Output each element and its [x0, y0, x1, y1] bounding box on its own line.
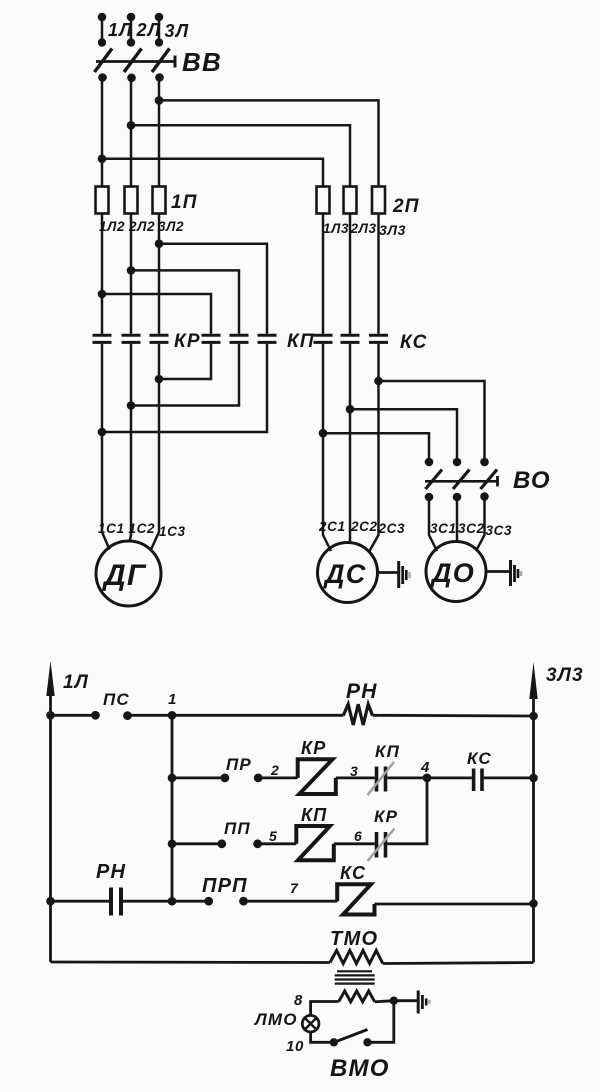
svg-text:ТМО: ТМО: [330, 928, 378, 950]
transformer core: [335, 971, 375, 983]
contactor КР main contacts: [93, 331, 201, 352]
ground of ДС: [378, 561, 410, 588]
wire 2П phase2 mid: [349, 214, 352, 334]
terminal 2Л: [127, 13, 162, 47]
lamp ЛМО: [253, 1010, 319, 1032]
svg-text:КП: КП: [375, 742, 400, 761]
node on phase3 / wire branch to 2П fuse3: [155, 96, 379, 186]
contactor coil КС: [337, 863, 374, 915]
node top right: [529, 712, 538, 721]
svg-text:РН: РН: [96, 861, 126, 883]
motor ДС: [318, 543, 378, 603]
svg-text:3С3: 3С3: [486, 523, 513, 538]
contact ПРП: [202, 875, 248, 906]
wire to right rail: [484, 774, 538, 783]
right rail 3Л3 with arrow: [529, 662, 583, 963]
wire: [51, 900, 110, 903]
svg-text:5: 5: [269, 828, 277, 844]
svg-text:1Л: 1Л: [63, 672, 89, 693]
node on phase2 / wire branch to 2П fuse2: [127, 121, 350, 187]
svg-text:3Л: 3Л: [165, 21, 190, 41]
svg-text:3Л3: 3Л3: [546, 665, 584, 686]
svg-text:ПР: ПР: [226, 755, 252, 774]
svg-text:ВО: ВО: [513, 467, 551, 494]
wire: [373, 714, 534, 718]
svg-text:ДО: ДО: [430, 558, 475, 588]
svg-text:КС: КС: [340, 863, 366, 883]
row2: node: [168, 774, 177, 783]
svg-text:КР: КР: [174, 331, 201, 352]
wire node 3: [336, 763, 375, 779]
svg-text:7: 7: [290, 880, 299, 896]
wire ВО pole1 to motor ДО: [429, 497, 437, 551]
wire X2 lower / node join phase2: [127, 344, 239, 410]
contact ПП: [217, 819, 262, 848]
wire node 4: [387, 759, 472, 782]
transformer ТМО primary: [330, 928, 383, 964]
wire phase3 upper: [158, 78, 161, 187]
wire right rail bottom to transformer: [383, 963, 534, 964]
wire 2П phase3 mid: [377, 214, 380, 334]
wire 2П phase1 mid: [322, 214, 325, 334]
wire X1 lower / node join phase3: [155, 344, 211, 384]
switch ВО: [425, 458, 551, 502]
transformer ТМО secondary: [339, 991, 375, 1002]
svg-text:2Л: 2Л: [136, 20, 162, 40]
terminal 3Л: [155, 13, 190, 47]
node phase1 / wire crossover to X1: [98, 290, 211, 334]
svg-text:1: 1: [168, 691, 177, 708]
node-1 vertical wire: [171, 715, 174, 901]
svg-text:3: 3: [350, 763, 358, 779]
switch ВВ: [95, 47, 222, 82]
contactor КС main contacts: [314, 332, 428, 353]
svg-text:2: 2: [270, 762, 279, 778]
contactor coil КР: [298, 738, 336, 794]
svg-text:КП: КП: [301, 805, 327, 825]
wire: [128, 714, 344, 717]
NC contact КП: [368, 742, 401, 795]
svg-text:ВМО: ВМО: [330, 1055, 390, 1082]
wire up to node 4: [387, 778, 427, 844]
contact ПР: [221, 755, 263, 782]
svg-text:КР: КР: [301, 738, 326, 758]
node phase2 / wire crossover to X2: [127, 266, 239, 334]
node phase3 / wire crossover to X3: [155, 239, 267, 333]
svg-text:ДС: ДС: [323, 559, 366, 589]
wire node 7: [244, 880, 338, 901]
svg-text:6: 6: [354, 828, 362, 844]
wire 2П phase3 to motor ДС: [370, 344, 379, 551]
wire 2П phase1 to motor ДС: [323, 344, 331, 551]
relay coil РН (zigzag): [343, 680, 377, 725]
svg-text:ЛМО: ЛМО: [253, 1010, 298, 1029]
wire secondary left / node 8: [294, 992, 339, 1015]
svg-text:3Л2: 3Л2: [158, 219, 184, 234]
wire ВО pole2 to motor ДО: [456, 497, 459, 542]
wire / node: [123, 897, 209, 906]
svg-text:1С2: 1С2: [129, 521, 156, 536]
node / branch wire to ВО pole2: [346, 405, 457, 462]
motor ДО: [426, 542, 486, 602]
node on phase1 / wire branch to 2П fuse1: [98, 155, 323, 187]
ground of ТМО secondary: [394, 991, 430, 1014]
wire node 2: [258, 762, 298, 778]
labels 3С1 3С2 3С3: [430, 521, 512, 538]
svg-text:8: 8: [294, 992, 303, 1009]
wire phase2 mid: [130, 214, 133, 334]
svg-text:РН: РН: [346, 680, 378, 703]
wire phase1 mid: [101, 214, 104, 334]
NC contact КР: [368, 807, 399, 861]
svg-text:1С3: 1С3: [159, 524, 186, 539]
svg-text:2П: 2П: [392, 196, 420, 217]
wire phase1 to motor ДГ: [102, 344, 110, 550]
row4: node left rail: [46, 897, 55, 906]
row3: node: [168, 840, 177, 849]
wire: [51, 714, 96, 717]
wire: [172, 842, 222, 845]
motor ДГ: [96, 541, 161, 606]
svg-text:10: 10: [286, 1038, 304, 1055]
svg-text:1Л3: 1Л3: [323, 221, 349, 236]
labels 1С1 1С2 1С3: [98, 521, 186, 539]
node / branch wire to ВО pole3: [374, 377, 484, 462]
wire phase2 to motor ДГ: [130, 344, 132, 542]
svg-text:1Л: 1Л: [108, 20, 133, 40]
terminal 1Л: [98, 13, 133, 47]
node / branch wire to ВО pole1: [319, 429, 429, 462]
ground of ДО: [486, 560, 521, 586]
svg-text:2С1: 2С1: [318, 519, 346, 534]
svg-text:ПП: ПП: [224, 819, 251, 838]
NO contact КС: [467, 749, 492, 791]
svg-text:3Л3: 3Л3: [379, 222, 406, 238]
svg-text:2С3: 2С3: [378, 521, 406, 536]
svg-text:2Л3: 2Л3: [350, 221, 377, 236]
wire node 5: [258, 828, 297, 844]
svg-text:ПРП: ПРП: [202, 875, 248, 897]
wire to right rail: [375, 899, 538, 908]
switch ВМО: [330, 1030, 390, 1083]
wire phase1 upper: [101, 78, 104, 187]
wire left rail bottom to transformer: [51, 961, 331, 964]
node 1: [168, 691, 177, 720]
contactor coil КП: [296, 805, 334, 860]
fuse group 2П: [317, 187, 420, 218]
svg-text:2С2: 2С2: [350, 519, 378, 534]
wire lamp to ВМО / label 10: [286, 1032, 334, 1055]
svg-text:ПС: ПС: [103, 690, 130, 709]
wire ВО pole3 to motor ДО: [476, 497, 485, 552]
contactor КП main contacts: [202, 331, 315, 352]
wire phase3 to motor ДГ: [151, 344, 159, 550]
wire ВМО to secondary right / node: [368, 997, 398, 1043]
svg-text:ВВ: ВВ: [182, 47, 222, 77]
svg-text:1П: 1П: [171, 192, 198, 213]
svg-text:3С2: 3С2: [458, 521, 485, 536]
svg-text:4: 4: [420, 759, 430, 776]
wire 2П phase2 to motor ДС: [349, 344, 352, 543]
wire: [172, 777, 225, 780]
svg-text:ДГ: ДГ: [101, 559, 147, 592]
wire phase3 mid: [158, 214, 161, 334]
fuse labels 1Л3 2Л3 3Л3: [323, 221, 406, 238]
fuse labels 1Л2 2Л2 3Л2: [99, 219, 184, 234]
NO contact РН: [96, 861, 126, 916]
wire X3 lower / node join phase1: [98, 344, 267, 437]
svg-text:3С1: 3С1: [430, 521, 457, 536]
svg-text:КС: КС: [467, 749, 492, 768]
svg-text:КР: КР: [374, 807, 398, 826]
left rail 1Л with arrow: [46, 661, 89, 962]
svg-text:КС: КС: [400, 332, 428, 353]
wire phase2 upper: [130, 78, 133, 187]
top rail / node: [46, 711, 55, 720]
fuse group 1П: [96, 187, 198, 214]
contact ПС: [91, 690, 132, 720]
labels 2С1 2С2 2С3: [318, 519, 405, 536]
svg-text:1С1: 1С1: [98, 521, 125, 536]
wire node 6: [334, 828, 375, 844]
svg-text:КП: КП: [287, 331, 315, 352]
